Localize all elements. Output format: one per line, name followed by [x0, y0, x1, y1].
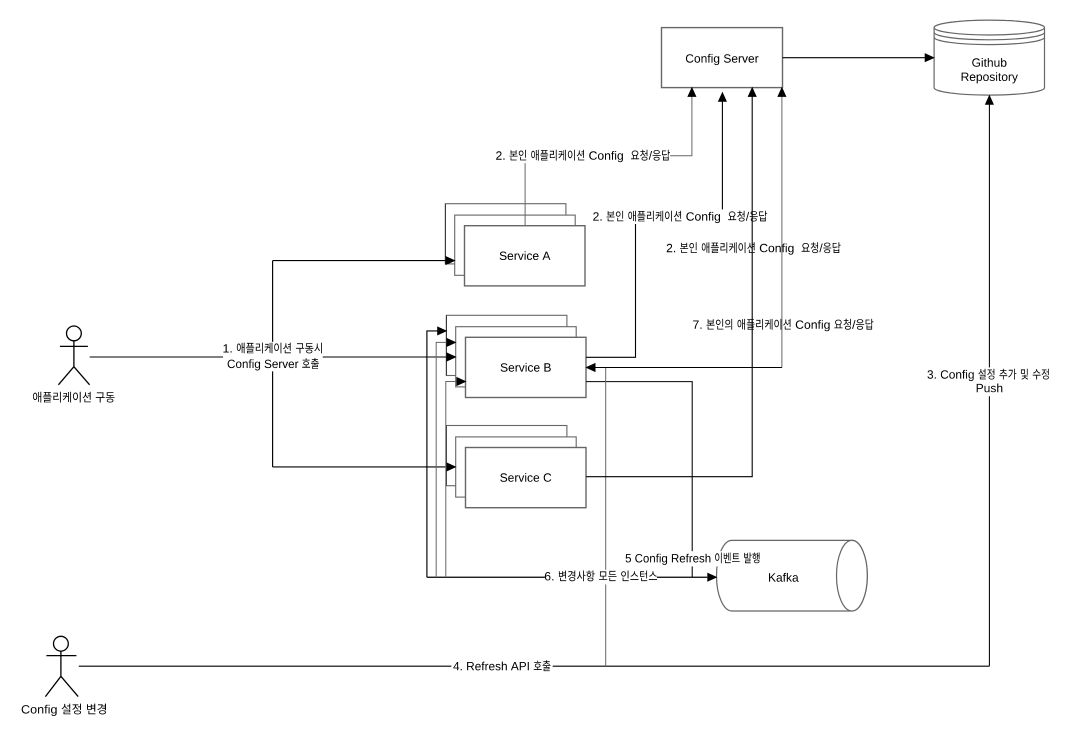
- label 4: [453, 660, 550, 671]
- actor 2 label: [22, 704, 106, 716]
- label background label 6: [545, 570, 657, 585]
- actor app run: [58, 326, 89, 385]
- label background label 2b: [593, 209, 768, 224]
- service stack Service A: [445, 204, 585, 286]
- edge 2c Service C to Config Server: [586, 91, 752, 477]
- edge 6 horizontal from Kafka: [427, 576, 707, 578]
- edge 6 fan instance 3: [446, 382, 457, 578]
- edge 7 vertical from Config Server: [781, 91, 783, 368]
- service stack Service C: [446, 426, 586, 508]
- edge 5 Service B to Kafka: [586, 382, 692, 578]
- label 1 line 2: [228, 358, 319, 371]
- edge 4 vertical to Service B: [605, 368, 607, 667]
- label background label 4: [451, 659, 552, 674]
- service stack Service B: [446, 315, 586, 397]
- label background label 2a: [495, 149, 670, 164]
- edge 1 main to Service B: [90, 356, 448, 358]
- label 6: [545, 570, 657, 581]
- edge 2b Service B to Config Server: [586, 96, 722, 358]
- Github Repository cylinder: [934, 20, 1044, 95]
- edge 3 vertical to Github: [988, 98, 990, 666]
- edge 3+4 bottom horizontal: [79, 665, 990, 667]
- edge 6 fan instance 2: [436, 342, 447, 577]
- edge 1 branch vertical: [272, 261, 274, 467]
- edge 7 horizontal to Service B: [596, 367, 782, 369]
- label 2c: [667, 242, 841, 255]
- label 3 line 1: [927, 369, 1048, 381]
- label 1 line 1: [223, 343, 321, 354]
- actor config change: [45, 636, 78, 696]
- label 3 line 2: [977, 384, 1003, 393]
- label 2a: [496, 150, 670, 163]
- label 5: [626, 553, 760, 565]
- label background label 5: [621, 551, 765, 566]
- edge 2a Service A to Config Server: [525, 91, 692, 226]
- Kafka cylinder: [717, 540, 868, 611]
- label 7: [693, 319, 873, 332]
- actor 1 label: [33, 392, 114, 403]
- edge 6 fan instance 1: [427, 331, 438, 577]
- label 2b: [593, 211, 767, 224]
- edge Config Server to Github: [783, 57, 926, 59]
- label background label 1: [223, 342, 323, 372]
- label background label 3: [925, 367, 1051, 396]
- edge 1 branch to Service C: [273, 466, 448, 468]
- edge 1 branch to Service A: [273, 260, 447, 262]
- Config Server box: [662, 28, 783, 88]
